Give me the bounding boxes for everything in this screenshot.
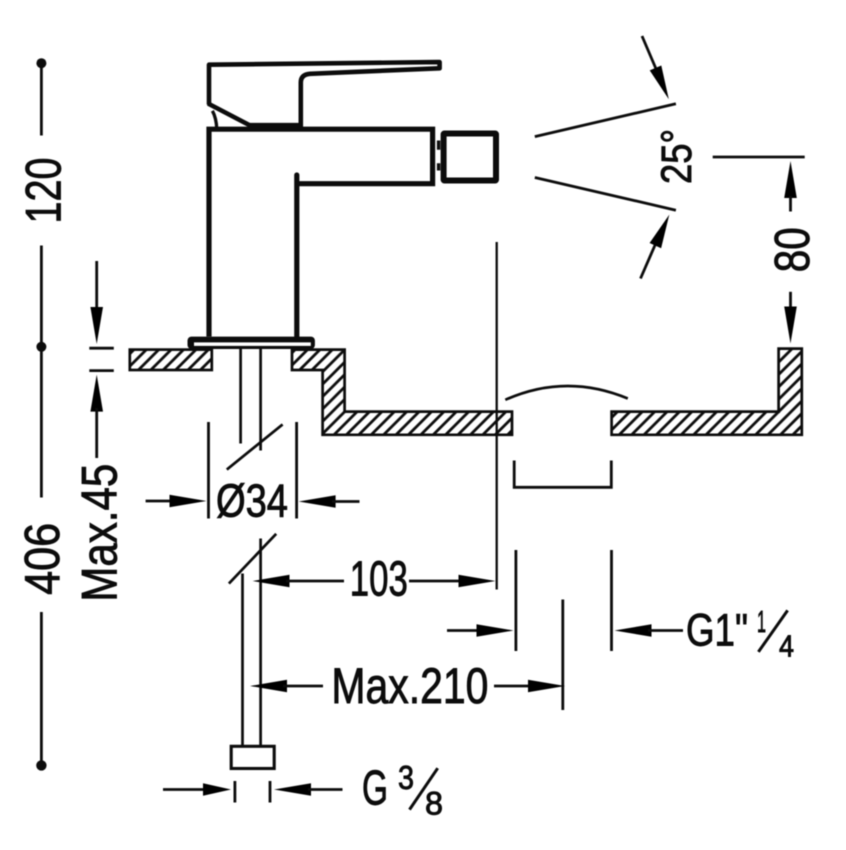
dim 80 lower shaft [789,292,792,308]
svg-text:80: 80 [766,227,820,272]
dim Max.45 up arrowhead [90,375,103,412]
dim G1-1/4 left extension line [515,550,518,651]
svg-text:G1": G1" [686,605,748,656]
svg-text:G: G [362,762,388,816]
svg-text:25°: 25° [653,129,701,184]
svg-text:103: 103 [350,553,408,607]
dim G1-1/4 right arrowhead [615,624,652,637]
dim O34 right extension line [295,422,298,519]
dim Max.210 right arrowhead [528,680,565,693]
pivot arc [212,111,216,129]
svg-text:8: 8 [425,786,443,822]
dim 80 down arrowhead [784,307,797,344]
supply pipe nut [231,746,274,768]
spray angle lower line [535,178,676,211]
svg-text:Max.45: Max.45 [72,464,128,602]
dim G3/8 right shaft [308,788,343,791]
handle base slant [208,104,254,128]
dim G1-1/4 left arrowhead [477,624,514,637]
dim line 406 upper segment [40,351,43,498]
svg-text:406: 406 [16,523,70,595]
svg-text:4: 4 [779,629,794,664]
faucet lever handle [209,62,440,128]
supply pipe upper right line [259,349,262,451]
dim G3/8 left arrowhead [203,783,231,796]
dim O34 left shaft [146,500,172,503]
dim line 120 lower segment [40,246,43,343]
dim 120/406 reference dot top [36,58,46,68]
drain hole bracket [514,461,611,488]
aerator box [444,134,496,181]
spray lower leader arrowhead [650,215,670,249]
countertop right section with riser (hatched) [612,349,802,435]
dim O34 right arrowhead [299,495,336,508]
dim Max.45 down arrowhead [90,307,103,344]
svg-text:1: 1 [757,604,766,639]
dim 103 left shaft [286,580,344,583]
dim G3/8 left tick [233,781,236,803]
spray lower leader shaft [641,244,656,279]
dim Max.210 left shaft [283,685,323,688]
countertop step section (hatched) [292,350,512,435]
supply pipe lower left line [241,574,244,747]
dim Max.45 lower shaft [95,408,98,458]
svg-text:Max.210: Max.210 [331,658,488,714]
dim Max.210 left arrowhead [250,680,287,693]
spray upper leader shaft [642,36,657,70]
dim line 120 upper segment [40,67,43,136]
dim 80 up arrowhead [784,161,797,198]
svg-text:3: 3 [398,759,414,796]
lever underside line [250,123,302,128]
dim G3/8 right arrowhead [274,783,311,796]
dim 103 right shaft [409,580,462,583]
dim G1-1/4 left shaft [447,629,480,632]
pipe break slash 1 [227,424,283,469]
dim 103 right arrowhead [459,575,496,588]
countertop left block (hatched) [130,350,212,370]
supply pipe lower right line [259,539,262,747]
dim G1-1/4 right shaft [648,629,683,632]
dim G1-1/4 right extension line [610,550,613,651]
dim G3/8 right tick [269,781,272,803]
dim Max.210 right shaft [494,685,532,688]
svg-text:120: 120 [16,158,72,224]
drain center extension line [561,600,564,711]
dim 103 left arrowhead [253,575,290,588]
dim O34 left arrowhead [170,495,207,508]
dim 120/406 reference dot middle [36,342,46,352]
dim G3/8 left shaft [163,788,205,791]
svg-text:Ø34: Ø34 [216,475,288,527]
faucet body outline [209,129,433,336]
spray upper leader arrowhead [650,66,669,100]
spray angle upper line [535,104,676,137]
pipe break slash 2 [229,534,276,584]
dim O34 right shaft [332,500,360,503]
dim 80 top reference line [713,156,805,159]
dim Max.45 bottom tick [89,369,114,372]
base flange [188,337,315,349]
spout-aerator connector dashes [437,141,440,171]
dim Max.45 upper shaft [95,261,98,310]
supply pipe upper left line [239,349,242,444]
base flange inner slot [194,342,311,346]
dim 120/406 reference dot bottom [36,760,46,770]
bidet bowl rim arc [505,386,628,400]
body column right edge [294,175,299,337]
spout axis extension line [496,242,498,590]
dim 80 upper shaft [789,196,792,212]
dim Max.45 top tick [89,347,114,350]
dim line 406 lower segment [40,612,43,761]
dim O34 left extension line [207,422,210,519]
